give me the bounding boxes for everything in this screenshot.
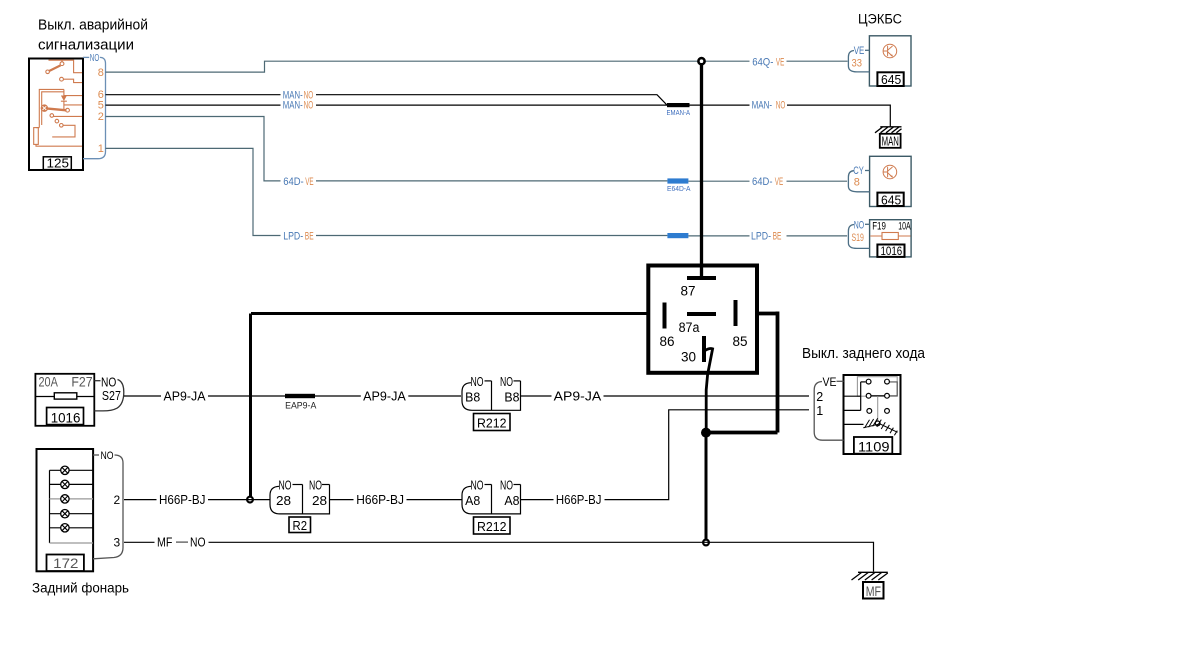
svg-text:10A: 10A [898, 221, 911, 233]
svg-text:NO: NO [500, 478, 513, 492]
svg-text:NO: NO [279, 478, 292, 492]
relay pin 30 bar [702, 336, 706, 362]
bracket rear lamp [93, 455, 123, 559]
svg-text:NO: NO [854, 220, 865, 232]
svg-text:125: 125 [47, 157, 70, 171]
svg-text:B8: B8 [465, 390, 480, 404]
CEKBC fuse unit (1016) [870, 220, 912, 259]
svg-text:87: 87 [681, 284, 696, 299]
svg-text:VE: VE [305, 176, 313, 188]
svg-text:87a: 87a [679, 320, 700, 335]
pin labels of 125 [90, 53, 100, 64]
bracket NO/S27 [94, 380, 124, 411]
wire relay 86 [251, 312, 649, 315]
svg-text:R2: R2 [293, 518, 308, 533]
rear lamp box 172 [37, 449, 94, 571]
wire labels top [281, 56, 788, 242]
wire AP9-JA [124, 395, 461, 397]
svg-text:NO: NO [309, 478, 322, 492]
svg-text:VE: VE [776, 56, 784, 68]
svg-text:A8: A8 [504, 494, 519, 508]
svg-text:645: 645 [881, 193, 901, 208]
svg-text:172: 172 [53, 555, 78, 571]
svg-text:MAN: MAN [882, 134, 899, 149]
svg-text:8: 8 [98, 67, 104, 79]
bracket NO/S19 [848, 224, 869, 248]
svg-text:64Q-: 64Q- [752, 56, 773, 68]
svg-text:30: 30 [681, 350, 696, 365]
svg-text:8: 8 [854, 177, 860, 189]
hazard switch 125 box [29, 59, 83, 171]
svg-text:R212: R212 [477, 415, 507, 430]
svg-text:1109: 1109 [858, 438, 890, 454]
junction dot [701, 428, 711, 438]
ground MF [852, 572, 888, 599]
svg-text:S19: S19 [852, 232, 864, 244]
svg-text:LPD-: LPD- [751, 231, 771, 243]
svg-text:1016: 1016 [51, 410, 81, 426]
connector bracket of 125 [83, 57, 106, 158]
svg-text:A8: A8 [465, 494, 480, 508]
svg-text:MF: MF [866, 584, 881, 599]
bracket VE/33 [848, 50, 869, 72]
svg-text:EMAN-A: EMAN-A [667, 108, 691, 117]
svg-text:Выкл. аварийной: Выкл. аварийной [38, 17, 148, 34]
bracket reverse switch [814, 381, 843, 440]
wire down to MF ring [705, 432, 708, 539]
thick vertical wire to relay 87 [700, 65, 703, 277]
svg-text:AP9-JA: AP9-JA [164, 389, 207, 403]
svg-text:S27: S27 [102, 388, 121, 403]
svg-text:64D-: 64D- [752, 176, 773, 188]
wire pin6 MAN-NO [106, 95, 668, 105]
connector R212 B8 [462, 381, 521, 410]
svg-text:AP9-JA: AP9-JA [554, 389, 602, 403]
svg-text:5: 5 [98, 100, 104, 112]
svg-text:H66P-BJ: H66P-BJ [159, 493, 206, 507]
svg-text:2: 2 [114, 493, 121, 507]
svg-text:LPD-: LPD- [283, 231, 303, 243]
wire relay 85 right [708, 312, 778, 433]
wire pin2 64D-VE [106, 117, 668, 181]
svg-text:VE: VE [854, 45, 865, 57]
svg-text:28: 28 [276, 494, 291, 508]
svg-text:NO: NO [190, 535, 206, 549]
ground MAN [875, 127, 902, 149]
labels AP9-JA [161, 389, 604, 403]
svg-text:3: 3 [114, 536, 121, 550]
svg-text:NO: NO [90, 53, 100, 64]
svg-text:BE: BE [773, 231, 782, 243]
svg-text:NO: NO [304, 100, 314, 112]
svg-text:B8: B8 [504, 390, 519, 404]
125 label [43, 157, 71, 171]
wire MF-NO [124, 542, 874, 571]
svg-text:R212: R212 [477, 519, 507, 534]
CEKBC unit top (645) [869, 36, 911, 87]
svg-text:Выкл. заднего хода: Выкл. заднего хода [802, 346, 926, 362]
wire pin8 to CEKBC [106, 61, 698, 72]
relay pin 87 bar [687, 276, 716, 280]
wire left vertical to H66P junction [249, 314, 252, 497]
svg-text:MAN-: MAN- [752, 100, 773, 112]
splice EMAN-A [667, 103, 690, 107]
CEKBC unit mid (645) [870, 156, 912, 207]
svg-text:сигнализации: сигнализации [38, 37, 134, 54]
title hazard switch [38, 17, 148, 54]
svg-text:64D-: 64D- [283, 176, 304, 188]
svg-text:BE: BE [305, 231, 314, 243]
splice EAP9-A [285, 394, 315, 398]
svg-text:MAN-: MAN- [283, 100, 303, 112]
svg-text:MF: MF [157, 535, 173, 549]
svg-text:2: 2 [816, 390, 823, 404]
relay pin 86 bar [663, 303, 667, 329]
relay pin 87a bar [687, 312, 716, 316]
svg-text:NO: NO [471, 478, 484, 492]
relay box [648, 266, 757, 373]
wire H66P-BJ [124, 499, 270, 501]
svg-text:F27: F27 [71, 374, 92, 389]
svg-text:CY: CY [853, 165, 864, 177]
svg-text:E64D-A: E64D-A [667, 184, 691, 193]
svg-text:86: 86 [660, 334, 675, 349]
svg-text:1016: 1016 [881, 244, 903, 258]
wire MAN-NO to ground [690, 105, 891, 127]
junction node ring top [698, 58, 704, 64]
svg-text:1: 1 [816, 404, 823, 418]
svg-text:85: 85 [733, 334, 748, 349]
hazard switch 125 internals [34, 60, 82, 146]
svg-text:NO: NO [101, 450, 114, 462]
fuse box 1016 left [35, 374, 94, 426]
svg-text:—: — [176, 534, 188, 548]
svg-text:AP9-JA: AP9-JA [363, 389, 406, 403]
svg-text:20A: 20A [39, 374, 58, 389]
svg-text:NO: NO [500, 375, 513, 389]
junction ring MF [703, 540, 709, 546]
svg-text:F19: F19 [872, 221, 886, 233]
relay pin 85 bar [734, 300, 738, 326]
svg-text:H66P-BJ: H66P-BJ [556, 493, 602, 507]
svg-text:VE: VE [775, 176, 783, 188]
svg-text:NO: NO [471, 375, 484, 389]
svg-text:EAP9-A: EAP9-A [285, 401, 317, 412]
svg-text:Задний фонарь: Задний фонарь [32, 579, 129, 595]
svg-text:1: 1 [98, 143, 104, 155]
svg-text:2: 2 [98, 111, 104, 123]
svg-text:H66P-BJ: H66P-BJ [356, 493, 404, 507]
connector R2 28 [270, 485, 330, 514]
svg-text:ЦЭКБС: ЦЭКБС [858, 12, 902, 27]
svg-text:28: 28 [312, 494, 327, 508]
wire pin1 LPD-BE [106, 148, 668, 235]
relay 30 contact arm [705, 349, 713, 429]
wire pin5 MAN-NO [106, 104, 668, 106]
svg-text:NO: NO [776, 100, 786, 112]
labels H66P-BJ [157, 493, 605, 507]
svg-text:33: 33 [852, 57, 863, 69]
junction ring left [247, 497, 253, 503]
splice E64D-A [667, 178, 688, 183]
reverse switch 1109 [844, 375, 901, 454]
svg-text:645: 645 [881, 72, 901, 87]
connector R212 A8 [462, 485, 521, 514]
bracket CY/8 [848, 171, 869, 192]
splice LPD [667, 233, 688, 238]
svg-text:VE: VE [823, 375, 837, 389]
